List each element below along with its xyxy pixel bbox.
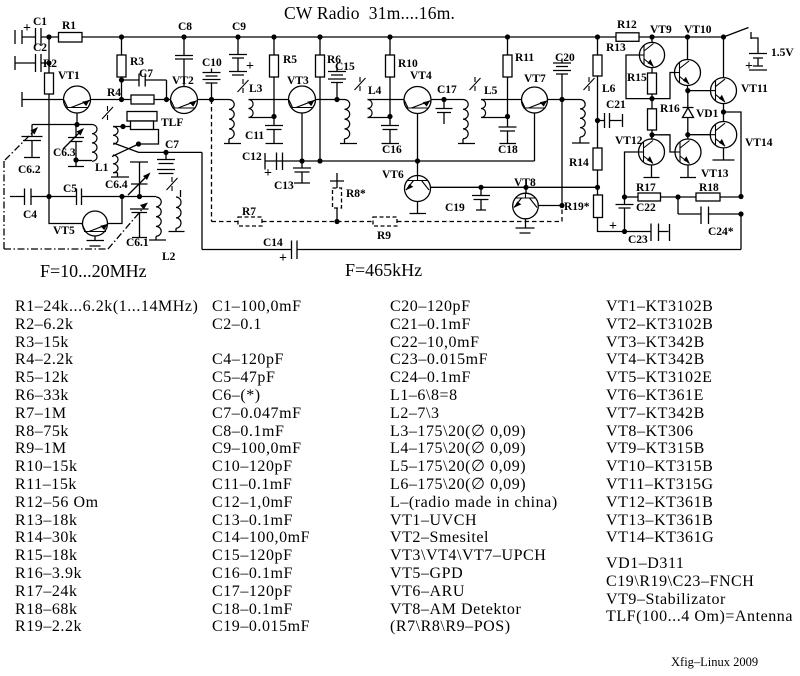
junction VT1 collector node	[119, 97, 124, 102]
junction VD1/VT13/VT14	[685, 132, 690, 137]
wire L5 secondary bottom to C18	[481, 117, 508, 118]
VT8 emitter to node	[538, 205, 562, 207]
svg-text:C5: C5	[63, 183, 77, 195]
L2 secondary bottom bar	[169, 228, 185, 231]
VT4 collector to L5	[431, 99, 463, 101]
VT13 ground bar	[680, 165, 696, 178]
svg-text:R14: R14	[569, 157, 589, 169]
inductor L2 primary	[156, 197, 161, 236]
inductor L1 primary	[92, 125, 97, 162]
junction rail/C1	[46, 34, 51, 39]
junction C17/collector	[441, 97, 446, 102]
resistor R11	[507, 37, 509, 55]
resistor R14	[593, 148, 602, 170]
inductor L3 secondary	[249, 100, 254, 118]
resistor R4	[131, 95, 154, 104]
transistor VT14	[710, 122, 736, 148]
dashed POS feedback line	[212, 100, 563, 222]
capacitor C22	[616, 197, 634, 232]
capacitor C23	[625, 224, 670, 242]
wire VT1 collector to R4	[91, 99, 132, 101]
C6.4 arrow	[128, 176, 147, 195]
wire C7b line	[139, 151, 202, 153]
transistor VT8	[525, 187, 527, 193]
svg-text:C21: C21	[606, 99, 626, 111]
VT7 emitter down	[534, 113, 536, 161]
junction R16 bottom	[649, 132, 654, 137]
adjustment mark L4	[355, 77, 366, 91]
svg-text:R5: R5	[283, 54, 297, 66]
adjustment mark near TLF	[102, 106, 113, 120]
wire emitter node left to C6.2	[32, 124, 77, 126]
svg-text:C4: C4	[23, 209, 37, 221]
inductor L4 secondary	[368, 100, 373, 118]
VT9 base loop	[626, 55, 652, 99]
transistor VT3	[289, 86, 316, 113]
L2 secondary top stem	[180, 190, 182, 197]
transistor VT12	[639, 139, 665, 165]
C6.2 gang arrow	[5, 130, 35, 160]
svg-text:C10: C10	[202, 57, 222, 69]
resistor R1	[59, 33, 83, 43]
right rail to bottom	[740, 214, 742, 250]
capacitor C15	[328, 67, 346, 100]
SCHEMATIC SVG	[0, 0, 800, 292]
svg-text:R17: R17	[636, 182, 656, 194]
inductor L5 secondary	[481, 100, 486, 118]
capacitor C17	[436, 100, 453, 125]
capacitor C14	[292, 241, 298, 260]
wire VT14 base	[688, 134, 711, 136]
VT6 emitter line to R14	[431, 186, 598, 188]
svg-text:R12: R12	[617, 19, 637, 31]
svg-text:+: +	[246, 59, 254, 74]
junction R3/C7	[119, 77, 124, 82]
capacitor C11	[265, 117, 283, 144]
svg-text:C17: C17	[437, 84, 457, 96]
svg-text:C18: C18	[498, 144, 518, 156]
junction C6.3/L1 bottom	[73, 157, 78, 162]
junction L4/C16/R10	[387, 114, 392, 119]
resistor R19	[594, 195, 603, 218]
transistor VT7	[522, 87, 548, 113]
svg-text:C19: C19	[445, 202, 465, 214]
wire L1 top to TLF	[113, 126, 131, 128]
resistor R8* (dashed)	[333, 188, 342, 208]
VT5 ground	[87, 236, 105, 246]
svg-text:R3: R3	[130, 56, 144, 68]
capacitor C5	[49, 189, 140, 206]
junction C4/C5	[46, 194, 51, 199]
junction VT2/C10/POS	[209, 97, 214, 102]
transistor VT1	[64, 86, 91, 113]
VT3 collector to L4	[316, 99, 345, 101]
svg-text:C6.2: C6.2	[18, 164, 41, 176]
junction rail/R3	[119, 34, 124, 39]
svg-text:R13: R13	[606, 42, 626, 54]
junction C20/VT7	[559, 97, 564, 102]
svg-text:R15: R15	[627, 72, 647, 84]
resistor R5	[273, 37, 275, 55]
VT6 ground	[410, 202, 427, 214]
VT1 base terminal bar	[21, 92, 23, 107]
svg-text:C1: C1	[33, 16, 47, 28]
transistor VT6	[405, 176, 431, 202]
wire L1 primary bottom	[76, 160, 92, 162]
transistor VT13	[687, 135, 689, 140]
wire to VT11 base	[688, 90, 711, 92]
input terminal bars	[15, 30, 22, 44]
capacitor C2	[15, 54, 49, 72]
svg-text:C6.3: C6.3	[53, 147, 76, 159]
power switch	[724, 28, 759, 54]
svg-text:R8*: R8*	[346, 188, 366, 200]
resistor R3	[117, 55, 126, 77]
svg-text:R4: R4	[107, 87, 121, 99]
VT8 ground	[516, 219, 535, 233]
adjustment mark near L2 top	[167, 177, 178, 191]
svg-text:R16: R16	[660, 103, 680, 115]
oscillator dash-dot boundary	[4, 161, 108, 249]
capacitor C19	[472, 187, 490, 210]
junction C2 node	[46, 60, 51, 65]
svg-text:L2: L2	[162, 251, 176, 263]
svg-text:C6.1: C6.1	[126, 237, 149, 249]
junction rail/R6	[317, 34, 322, 39]
svg-text:VT13: VT13	[701, 168, 729, 180]
svg-text:+: +	[745, 59, 753, 74]
wire to VT10 base	[652, 73, 675, 99]
battery 1.5V	[749, 54, 767, 71]
svg-text:L6: L6	[602, 83, 616, 95]
capacitor C1	[36, 28, 42, 46]
title CW Radio	[284, 3, 455, 24]
bottom rail	[202, 249, 741, 251]
VT3 emitter down	[301, 113, 303, 161]
wire C1 node down	[48, 37, 50, 73]
capacitor C9	[229, 37, 247, 75]
svg-text:VT5: VT5	[53, 225, 75, 237]
credit Xfig-Linux 2009	[671, 655, 758, 670]
wire L4 secondary bottom to C16	[368, 117, 391, 118]
capacitor C18	[499, 117, 517, 144]
svg-text:+: +	[23, 21, 31, 36]
diode VD1	[683, 91, 694, 135]
junction rail/C9	[235, 34, 240, 39]
label F=10...20MHz	[40, 261, 147, 282]
capacitor C16	[381, 117, 399, 144]
C6.3 arrow	[63, 131, 81, 149]
inductor L4 primary	[345, 100, 350, 139]
wire VT11 emitter to right rail	[724, 112, 742, 197]
svg-text:VT4: VT4	[410, 70, 432, 82]
adjustment mark L6	[584, 77, 595, 91]
transistor VT9	[639, 42, 664, 67]
VT7 collector to L6	[548, 99, 581, 101]
inductor L6	[580, 100, 585, 138]
wire R16 to VT13 base	[652, 135, 675, 152]
adjustment mark L3	[238, 79, 249, 93]
junction R17/C22	[622, 194, 627, 199]
junction VT10 emitter / VD1	[685, 88, 690, 93]
junction R14 bottom	[595, 185, 600, 190]
junction L5/C18/R11	[505, 114, 510, 119]
wire L3 secondary top to VT3 base	[249, 99, 289, 101]
parts list column 4 lower block	[606, 555, 793, 626]
wire base to VT1	[22, 99, 64, 101]
junction TLF return	[136, 141, 141, 146]
wire to L2	[140, 196, 157, 198]
resistor R2	[45, 73, 54, 94]
svg-text:C14: C14	[263, 237, 283, 249]
svg-text:C8: C8	[178, 21, 192, 33]
junction VT4/line161	[415, 158, 420, 163]
capacitor C7 lower	[157, 152, 175, 173]
transistor VT4	[404, 87, 431, 114]
svg-text:L3: L3	[249, 83, 263, 95]
svg-text:VT1: VT1	[58, 70, 80, 82]
junction R6/line161	[317, 158, 322, 163]
capacitor C10	[203, 69, 221, 100]
parts list column 3: C20-C24, coils, transistor functions	[390, 298, 558, 636]
L6 ground	[572, 137, 590, 143]
junction C6.1 top	[137, 194, 142, 199]
resistor R15	[648, 73, 657, 94]
svg-text:C12: C12	[242, 151, 262, 163]
parts list column 4: transistor types	[606, 298, 714, 547]
junction VT1 emitter	[74, 122, 79, 127]
transistor VT10	[675, 60, 701, 86]
junction L3/C11/R5	[271, 114, 276, 119]
wire VT2 emitter to L3	[198, 99, 230, 101]
R8 wire and tap bar	[330, 173, 344, 222]
svg-text:C11: C11	[245, 130, 264, 142]
label F=465kHz	[345, 260, 422, 281]
parts list column 2: capacitors C1-C19	[212, 298, 310, 636]
VT4 emitter down to VT6	[417, 114, 419, 176]
junction VT3/line161	[299, 158, 304, 163]
top supply rail	[22, 36, 724, 38]
svg-text:VT9: VT9	[650, 24, 672, 36]
wire rail to R3	[121, 37, 123, 55]
capacitor C8	[175, 37, 193, 87]
svg-text:L5: L5	[484, 85, 498, 97]
resistor R17	[625, 196, 639, 198]
ground under C6.3	[68, 160, 84, 167]
junction rail/R10	[387, 34, 392, 39]
TLF return wire	[139, 130, 159, 145]
transistor VT5	[49, 197, 83, 224]
svg-text:C23: C23	[628, 234, 648, 246]
VT12 ground bar	[644, 165, 660, 178]
svg-text:C24*: C24*	[708, 226, 734, 238]
svg-text:R10: R10	[398, 58, 418, 70]
resistor R16	[648, 109, 657, 130]
svg-text:R1: R1	[62, 20, 76, 32]
junction C19	[478, 185, 483, 190]
L3 primary ground	[224, 139, 241, 144]
svg-text:TLF: TLF	[161, 117, 183, 129]
capacitor C7 top	[122, 74, 167, 100]
earphone TLF	[127, 112, 157, 122]
junction VT11 emitter	[721, 109, 726, 114]
parts list column 1: resistors	[15, 298, 198, 636]
resistor R7 (dashed)	[238, 217, 262, 226]
svg-text:R19*: R19*	[564, 201, 590, 213]
wire R4 to VT2 base	[154, 99, 171, 101]
capacitor C21	[598, 113, 623, 128]
L1 crossing wires	[112, 143, 139, 157]
variable capacitor C6.4	[130, 162, 148, 197]
wire C20 node down to VT8	[561, 100, 563, 206]
svg-text:VT2: VT2	[172, 75, 194, 87]
VT12 base wire	[625, 152, 639, 197]
svg-text:C7: C7	[139, 68, 153, 80]
inductor L2 secondary	[176, 197, 181, 228]
capacitor C12	[265, 153, 283, 171]
VT14 output bar	[713, 148, 735, 160]
junction rail/R13	[595, 34, 600, 39]
svg-text:1.5V: 1.5V	[771, 47, 794, 59]
inductor L5 primary	[463, 100, 468, 139]
svg-text:C7: C7	[165, 139, 179, 151]
variable capacitor C6.3	[68, 125, 84, 161]
svg-text:C16: C16	[382, 144, 402, 156]
VT9 emitter to R15	[651, 68, 653, 73]
svg-text:VT3: VT3	[287, 75, 309, 87]
resistor R18	[696, 193, 720, 201]
junction L1/TLF	[120, 124, 125, 129]
svg-text:C22: C22	[636, 202, 656, 214]
resistor R12	[616, 33, 639, 42]
L4 primary ground	[340, 139, 357, 144]
variable capacitor C6.2	[22, 125, 43, 158]
svg-text:L4: L4	[368, 85, 382, 97]
wire R3 to VT1 collector node	[121, 77, 123, 100]
capacitor C20	[553, 59, 571, 100]
junction VT8 top	[523, 185, 528, 190]
inductor L1 secondary upper	[113, 127, 118, 145]
svg-text:VT7: VT7	[524, 73, 546, 85]
junction C24 right	[738, 211, 743, 216]
resistor R13	[597, 37, 599, 55]
L1 secondary bottom bar	[111, 173, 129, 177]
inductor L1 secondary lower	[113, 155, 118, 173]
junction C7b	[163, 150, 168, 155]
svg-text:R9: R9	[377, 230, 391, 242]
capacitor C4	[10, 189, 49, 206]
wire L3 secondary bottom to C11	[249, 117, 275, 118]
junction VT8 emitter	[559, 203, 564, 208]
C6.1 gang arrow	[108, 206, 145, 249]
svg-text:C9: C9	[232, 21, 246, 33]
supply line161	[265, 160, 535, 162]
junction rail/VT9	[649, 34, 654, 39]
junction R13/C21	[595, 118, 600, 123]
transistor VT11	[711, 78, 737, 104]
junction C5/VT5	[119, 194, 124, 199]
capacitor C24	[678, 197, 741, 224]
VT5 collector wire up	[108, 197, 123, 224]
svg-text:C6.4: C6.4	[105, 179, 128, 191]
svg-text:VD1: VD1	[696, 108, 719, 120]
svg-text:VT6: VT6	[382, 169, 404, 181]
resistor R9 (dashed)	[373, 217, 397, 226]
VT1 emitter wire down	[76, 113, 78, 125]
svg-text:C20: C20	[555, 52, 575, 64]
svg-text:VT14: VT14	[745, 137, 773, 149]
wire L5 secondary top to VT7 base	[481, 99, 522, 101]
inductor L3 primary	[229, 100, 234, 139]
junction R15/R16	[649, 96, 654, 101]
junction C22/C23	[622, 229, 627, 234]
resistor R10	[389, 37, 391, 55]
transistor VT2	[171, 87, 198, 114]
junction R4/C7/VT2	[164, 97, 169, 102]
junction rail/VT10	[685, 34, 690, 39]
junction rail/R5	[271, 34, 276, 39]
junction POS/R8	[334, 219, 339, 224]
capacitor C13	[293, 161, 311, 183]
wire L4 secondary top to VT4 base	[368, 99, 405, 101]
junction R18 right	[738, 194, 743, 199]
svg-text:VT11: VT11	[741, 83, 768, 95]
junction C15/collector	[334, 97, 339, 102]
wire down to bottom rail	[201, 152, 203, 249]
svg-text:R7: R7	[242, 206, 256, 218]
svg-text:VT12: VT12	[615, 135, 643, 147]
junction rail/R11	[505, 34, 510, 39]
svg-text:VT10: VT10	[684, 24, 712, 36]
wire emitter node right to L1	[77, 124, 92, 126]
junction rail/C8	[181, 34, 186, 39]
svg-text:L1: L1	[95, 162, 109, 174]
junction R17/R18	[675, 194, 680, 199]
resistor R6	[319, 37, 321, 55]
junction rail/switch	[721, 34, 726, 39]
wire R2 to C4 node	[48, 94, 50, 197]
adjustment mark L5	[470, 77, 481, 91]
svg-text:+: +	[279, 251, 287, 266]
L2 primary bottom bar	[149, 236, 166, 240]
svg-text:R18: R18	[699, 182, 719, 194]
L5 primary ground	[458, 139, 475, 144]
svg-text:C13: C13	[274, 180, 294, 192]
variable capacitor C6.1	[130, 209, 149, 238]
svg-text:R11: R11	[515, 52, 534, 64]
